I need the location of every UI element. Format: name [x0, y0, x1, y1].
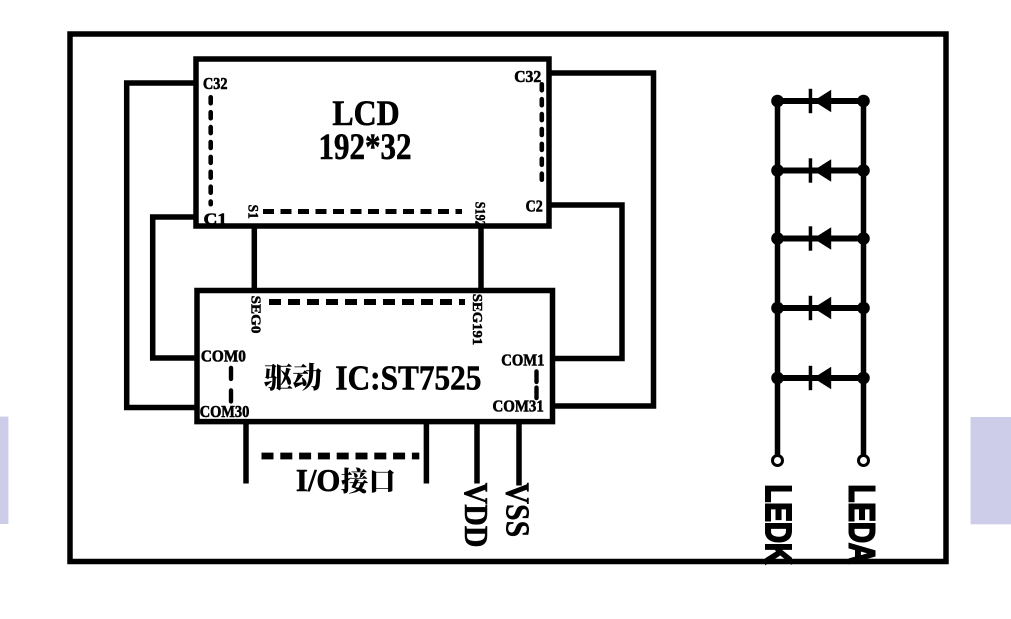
svg-text:192*32: 192*32 — [319, 127, 412, 168]
svg-text:COM1: COM1 — [501, 351, 544, 370]
svg-text:COM31: COM31 — [493, 397, 544, 416]
svg-text:COM0: COM0 — [201, 347, 246, 366]
svg-text:C32: C32 — [203, 74, 228, 93]
svg-text:LEDK: LEDK — [758, 485, 799, 565]
svg-text:S1: S1 — [245, 205, 261, 219]
svg-text:VSS: VSS — [499, 483, 536, 537]
svg-text:IC:ST7525: IC:ST7525 — [335, 359, 481, 398]
svg-text:VDD: VDD — [457, 483, 494, 548]
svg-text:I/O: I/O — [296, 462, 341, 498]
svg-text:C32: C32 — [514, 67, 541, 86]
svg-text:SEG191: SEG191 — [470, 294, 485, 346]
svg-text:SEG0: SEG0 — [249, 296, 264, 334]
svg-text:S192: S192 — [472, 202, 488, 227]
svg-text:COM30: COM30 — [200, 402, 250, 421]
svg-text:C1: C1 — [204, 210, 228, 229]
svg-text:LEDA: LEDA — [841, 485, 882, 565]
svg-text:C2: C2 — [526, 197, 543, 216]
